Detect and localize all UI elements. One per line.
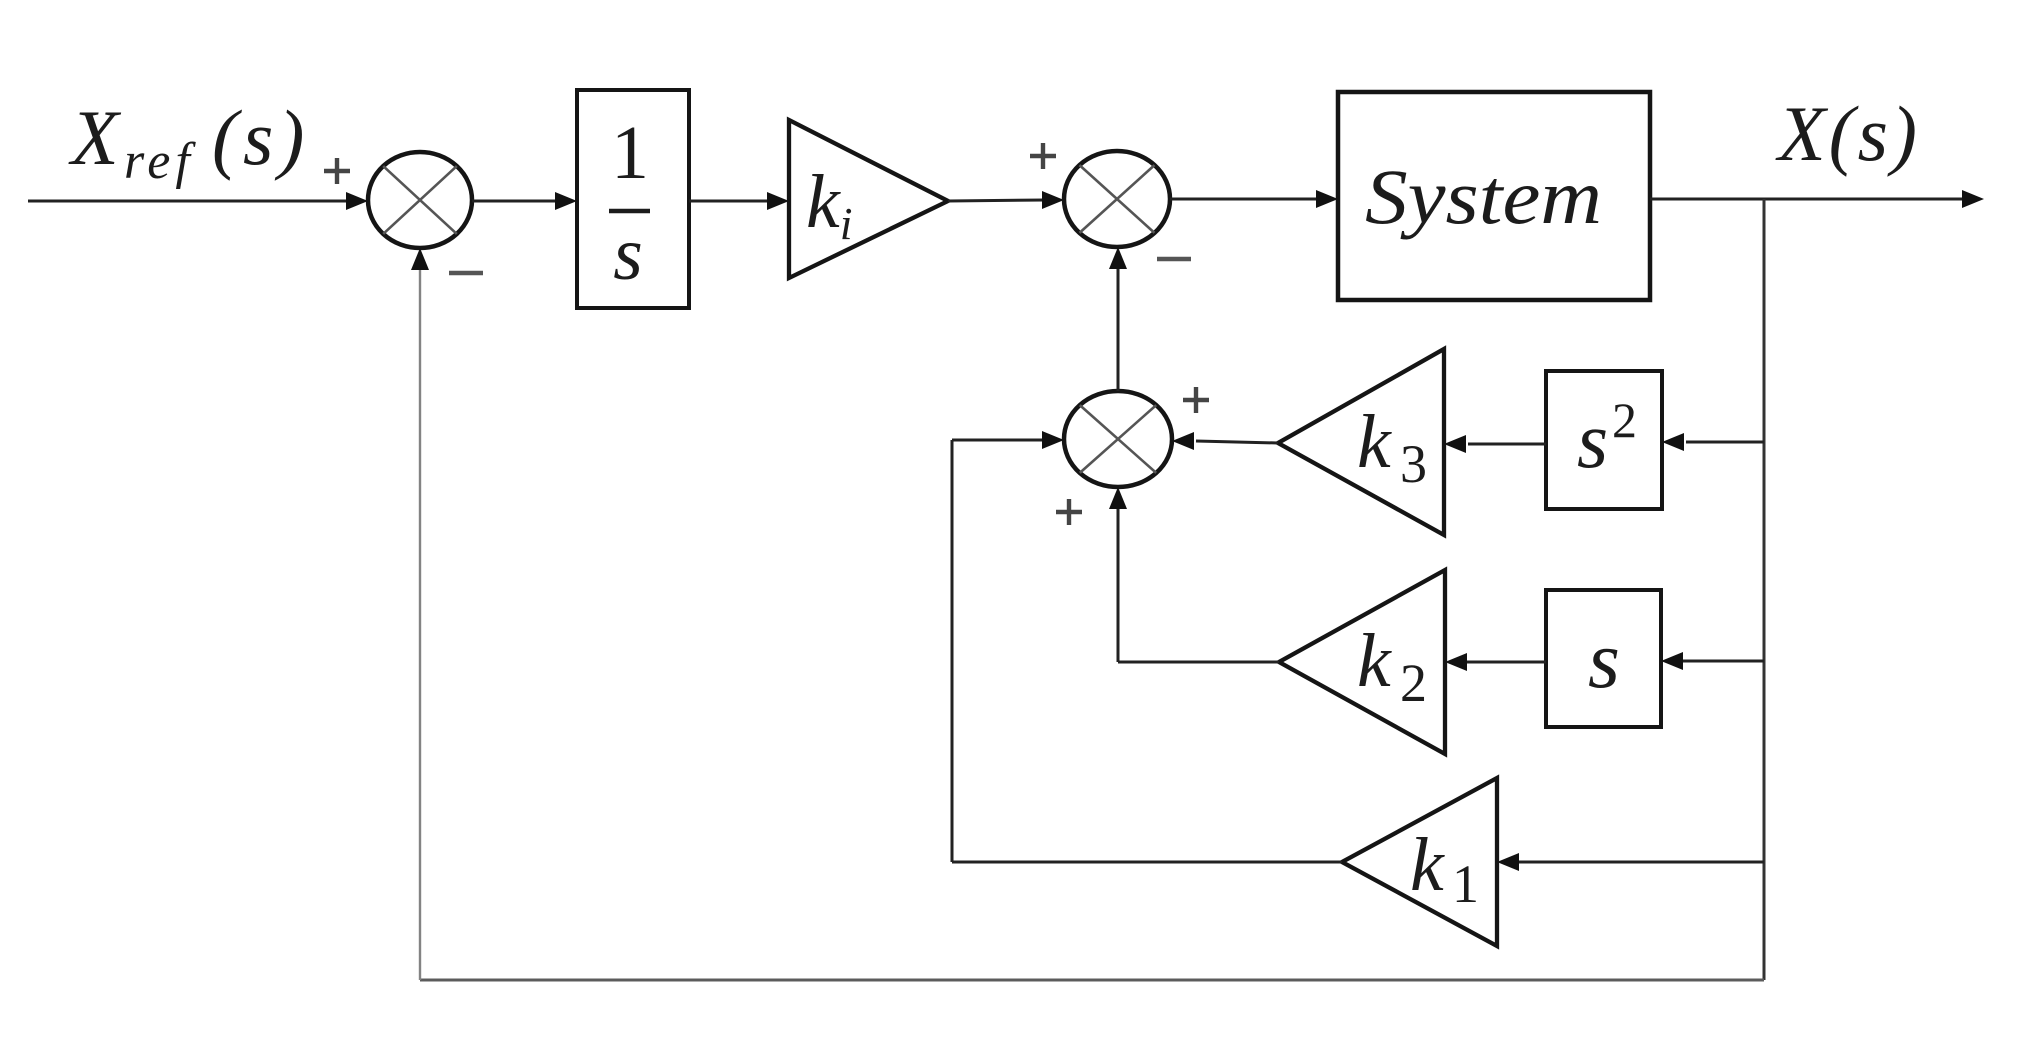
wire takeoff to s2 block [1662,433,1764,451]
svg-text:k: k [1410,823,1445,907]
gain k2 triangle [1279,570,1445,754]
plus sign at S3 bottom input [1056,499,1082,525]
svg-text:X(s): X(s) [1775,90,1920,177]
minus sign at S2 feedback input [1157,257,1191,262]
svg-text:s: s [1588,614,1620,705]
wire k3 to summing junction S3 [1172,432,1278,450]
wire feedback takeoff vertical [1763,199,1766,980]
block System [1338,92,1650,300]
wire s2 to gain k3 [1444,435,1546,453]
summing junction S2 [1064,151,1170,247]
svg-text:k: k [1357,619,1392,703]
gain k3 triangle [1278,349,1444,535]
wire S1 to integrator [472,192,577,210]
svg-text:X: X [68,94,122,181]
node label Xref(s) [68,94,309,190]
wire S3 output up to S2 [1109,247,1127,391]
wire s to gain k2 [1445,653,1546,671]
wire outer feedback up to S1 bottom [411,248,429,980]
block s [1546,590,1661,727]
svg-text:s: s [613,212,643,296]
svg-text:3: 3 [1400,434,1427,494]
plus sign at S2 input [1030,143,1056,169]
svg-text:1: 1 [611,111,649,195]
svg-text:System: System [1365,153,1602,240]
svg-text:1: 1 [1452,854,1479,914]
svg-text:2: 2 [1400,653,1427,713]
wire k1 output left then up to S3 left input [952,431,1342,862]
node label X(s) [1775,90,1920,177]
summing junction S3 [1064,391,1172,487]
plus sign at summing junction S1 [324,158,350,184]
svg-text:s: s [1577,397,1608,485]
block s squared [1546,371,1662,509]
minus sign at S1 feedback input [449,271,483,276]
wire k2 output left to corner [1118,661,1279,664]
gain k1 triangle [1342,778,1497,946]
svg-text:2: 2 [1612,392,1637,448]
summing junction S1 [368,152,472,248]
wire k2 corner up to S3 bottom [1109,487,1127,662]
svg-text:ref: ref [124,133,196,190]
block integrator 1/s [577,90,689,308]
wire input Xref [28,192,368,210]
wire takeoff to s block [1661,652,1764,670]
svg-text:k: k [1357,400,1392,484]
svg-text:(s): (s) [212,94,309,181]
gain ki triangle [789,120,948,278]
plus sign at S3 right input [1183,387,1209,413]
wire output X(s) [1650,190,1984,208]
wire ki to summing junction S2 [948,191,1064,209]
wire integrator to gain ki [689,192,789,210]
wire takeoff to gain k1 [1497,853,1764,871]
wire S2 to System [1170,190,1338,208]
wire outer feedback bottom [420,979,1764,982]
